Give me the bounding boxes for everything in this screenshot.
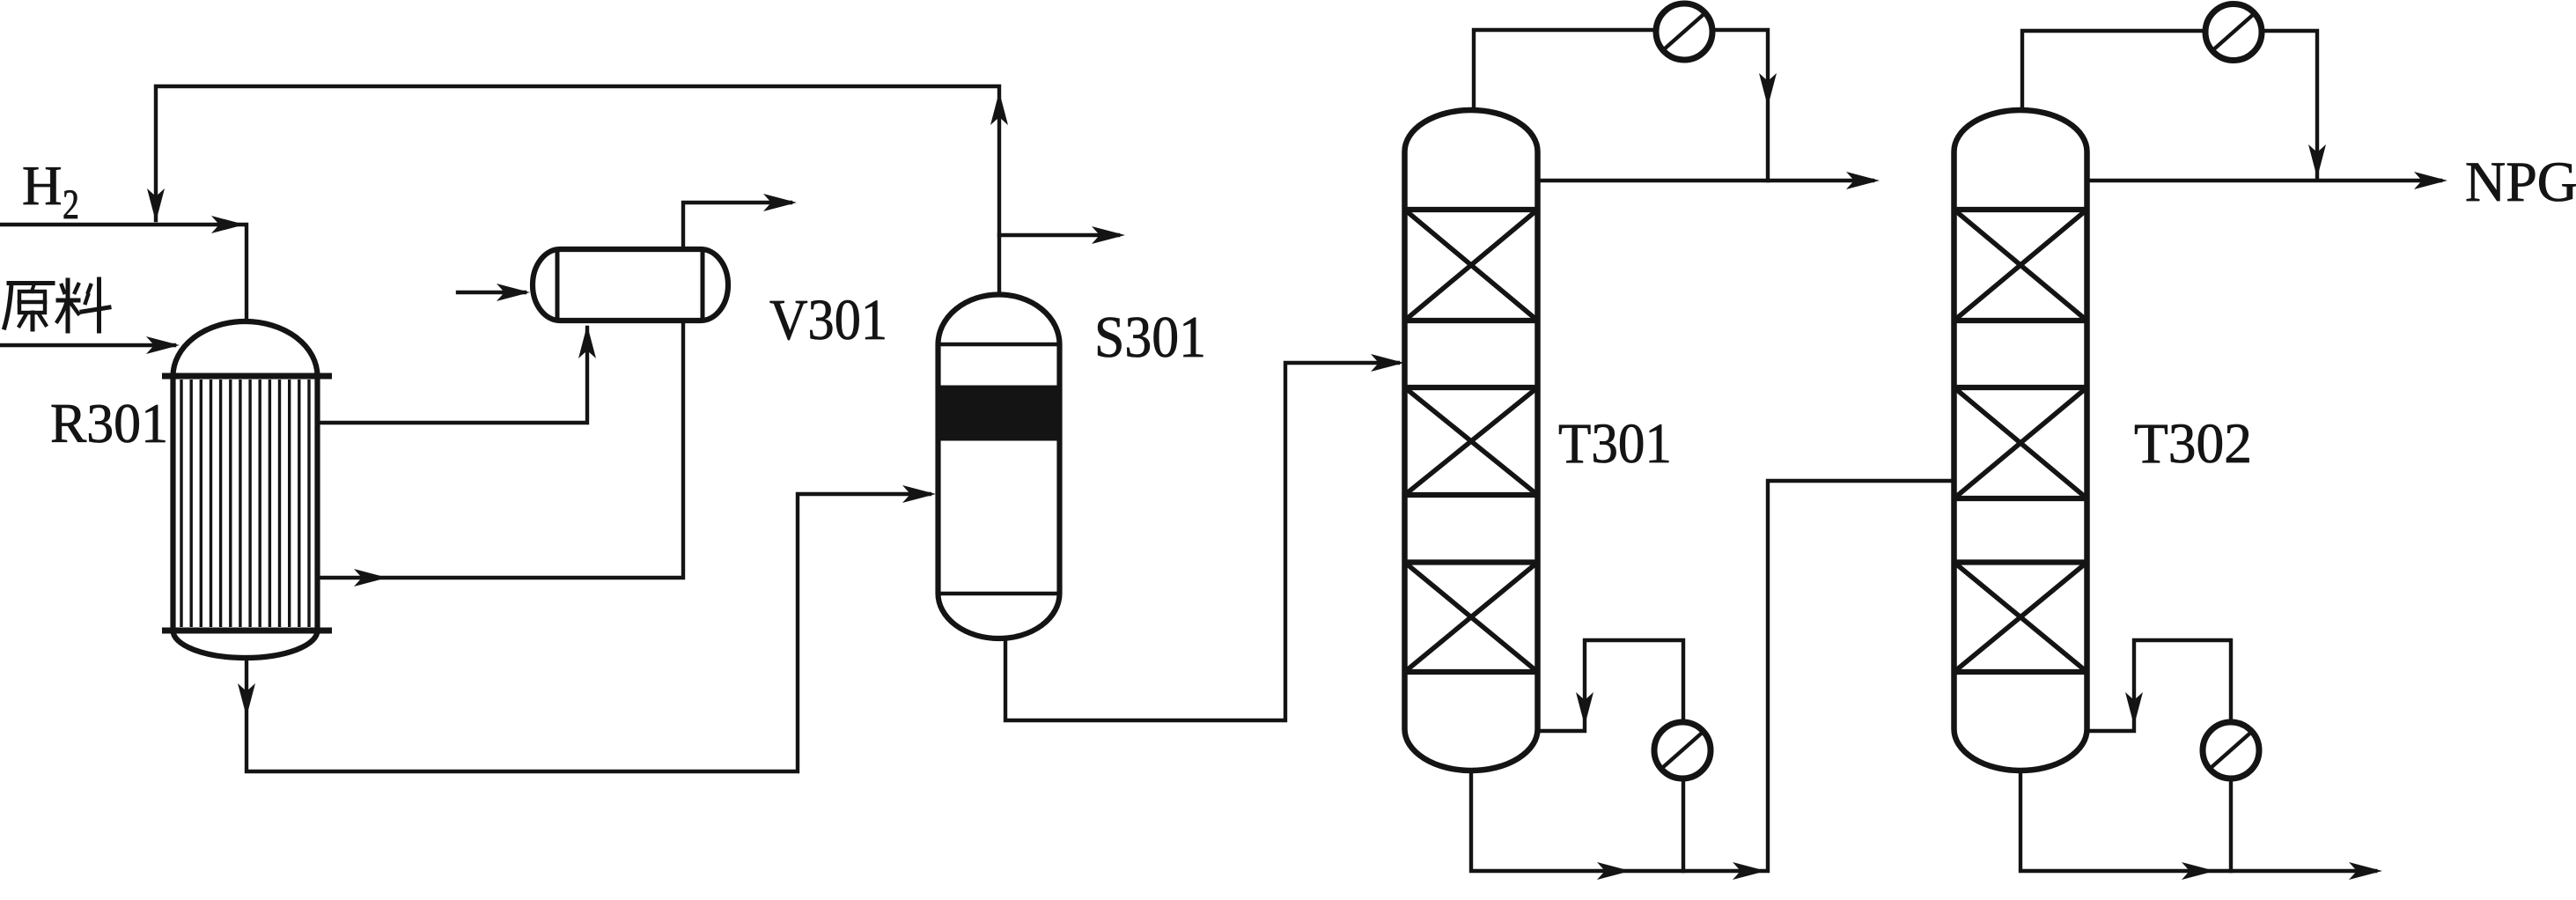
wire recycle return from S301 top to H2 line bbox=[147, 86, 1008, 294]
reactor R301 tube sheet flanges bbox=[162, 376, 332, 631]
reboiler circle of T301 bbox=[1654, 722, 1711, 778]
wire raw material feed into reactor bbox=[0, 336, 180, 354]
svg-text:2: 2 bbox=[63, 181, 79, 228]
wire T301 distillate product arrow bbox=[1539, 172, 1880, 189]
column T302 packing section 3 bbox=[1954, 563, 2087, 673]
label raw material (CJK yuan) bbox=[4, 284, 53, 330]
column T302 shell bbox=[1954, 110, 2087, 771]
vessel V301 head seams bbox=[557, 249, 703, 321]
wire T302 overhead line to condenser bbox=[2022, 31, 2326, 178]
svg-text:S301: S301 bbox=[1094, 305, 1206, 370]
wire V301 top vent arrow bbox=[683, 194, 797, 247]
wire T302 reboiler loop bbox=[2087, 640, 2231, 871]
column T302 packing section 1 bbox=[1954, 210, 2087, 321]
wire purge branch arrow from riser bbox=[999, 226, 1125, 244]
wire reactor upper outlet to V301 bottom bbox=[317, 325, 596, 423]
vessel V301 shell bbox=[533, 249, 728, 321]
column T301 shell bbox=[1405, 110, 1538, 771]
separator S301 tray lines bbox=[938, 344, 1060, 594]
label raw material (CJK liao) bbox=[57, 279, 109, 331]
wire S301 bottoms to T301 feed bbox=[1005, 354, 1404, 720]
separator S301 packed bed (black band) bbox=[941, 386, 1057, 441]
svg-text:NPG: NPG bbox=[2465, 151, 2576, 214]
wire T302 bottoms product arrow bbox=[2020, 769, 2382, 880]
column T301 packing section 3 bbox=[1405, 563, 1538, 673]
svg-text:T302: T302 bbox=[2134, 412, 2252, 476]
svg-text:H: H bbox=[22, 155, 63, 217]
svg-text:T301: T301 bbox=[1558, 412, 1672, 476]
wire reactor lower outlet to V301 bottom right bbox=[317, 321, 683, 586]
separator S301 shell bbox=[938, 295, 1060, 639]
column T302 packing section 2 bbox=[1954, 387, 2087, 498]
wire inlet into V301 left bbox=[458, 284, 530, 301]
svg-text:R301: R301 bbox=[50, 392, 168, 454]
column T301 packing section 1 bbox=[1405, 210, 1538, 321]
reactor R301 catalyst tubes bbox=[181, 380, 309, 627]
wire reactor bottom outlet to S301 inlet bbox=[238, 485, 936, 771]
condenser circle of T302 bbox=[2205, 4, 2262, 61]
wire T302 NPG product arrow bbox=[2087, 172, 2447, 189]
column T301 packing section 2 bbox=[1405, 387, 1538, 495]
svg-text:V301: V301 bbox=[769, 288, 887, 352]
reboiler circle of T302 bbox=[2203, 722, 2259, 778]
label H2 bbox=[22, 155, 79, 228]
condenser circle of T301 bbox=[1656, 4, 1712, 60]
wire T301 reboiler loop bbox=[1539, 640, 1683, 871]
reactor R301 shell bbox=[173, 321, 318, 658]
wire H2 feed line into reactor bbox=[0, 216, 247, 321]
wire T301 bottoms to T302 feed bbox=[1471, 481, 1952, 880]
wire T301 overhead line to condenser bbox=[1474, 30, 1777, 181]
